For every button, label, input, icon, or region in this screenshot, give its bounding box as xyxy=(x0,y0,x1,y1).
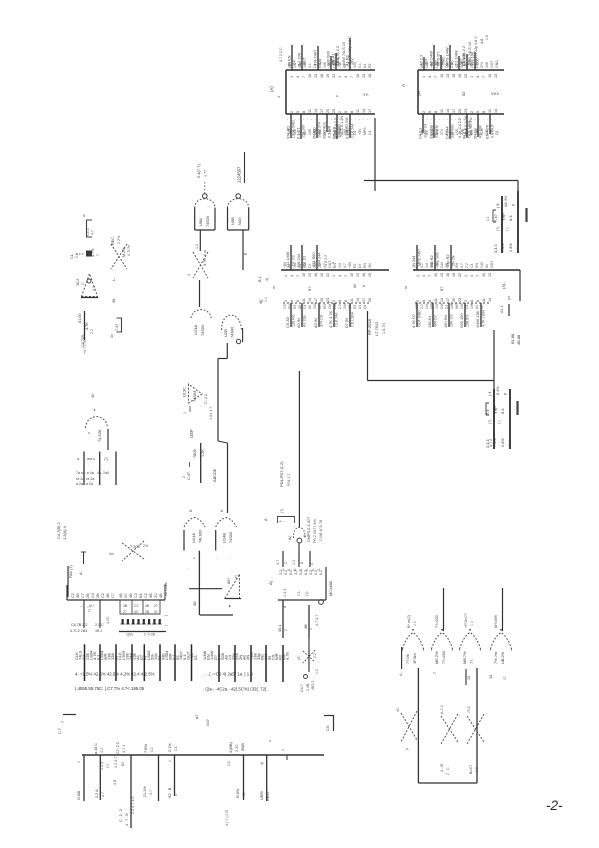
gate U5A NAND rotated up with bubble xyxy=(203,194,208,199)
svg-text:80?: 80? xyxy=(227,578,231,584)
svg-text:C/4B 4C0.78: C/4B 4C0.78 xyxy=(319,520,323,541)
svg-text:14: 14 xyxy=(494,109,498,113)
svg-text:11: 11 xyxy=(302,298,306,302)
svg-text:8: 8 xyxy=(303,535,307,537)
svg-text:4: 4 xyxy=(187,274,191,276)
svg-text:1/4W 74LS 10: 1/4W 74LS 10 xyxy=(468,42,472,66)
svg-text:13: 13 xyxy=(308,273,312,277)
svg-text:7C4: 7C4 xyxy=(467,706,471,713)
svg-text:2.2: 2.2 xyxy=(465,263,469,268)
svg-text:. 7: . 7 xyxy=(433,672,437,676)
IC U3 dashed bottom edge xyxy=(283,302,369,304)
svg-text:5.4: 5.4 xyxy=(500,408,505,414)
wire box right vertical xyxy=(476,668,478,783)
svg-text:7: 7 xyxy=(344,275,348,277)
svg-text:C . 2 . 2: C . 2 . 2 xyxy=(119,809,123,822)
svg-text:Q1: Q1 xyxy=(363,304,367,309)
svg-text:19: 19 xyxy=(458,74,462,78)
svg-text:2.2: 2.2 xyxy=(313,653,317,658)
svg-text:_#! !: _#! ! xyxy=(86,604,94,608)
svg-text:4.7: 4.7 xyxy=(149,790,153,795)
svg-text:p: p xyxy=(405,748,409,750)
wire from U5A input down xyxy=(199,230,201,251)
wire horizontal from U3 wire to U4 wire xyxy=(368,380,495,382)
svg-text:19: 19 xyxy=(452,273,456,277)
svg-text:5: 5 xyxy=(296,111,300,113)
wire below bubble gate xyxy=(298,543,300,551)
svg-text:49: 49 xyxy=(111,299,116,303)
svg-text:10K: 10K xyxy=(470,302,474,309)
svg-text:C4: C4 xyxy=(298,263,302,268)
svg-text:1.: 1. xyxy=(281,748,285,751)
svg-text:374 7407: 374 7407 xyxy=(313,50,318,66)
svg-text:138 A1: 138 A1 xyxy=(427,316,432,328)
svg-text:7: 7 xyxy=(61,721,65,723)
svg-text:7?=220: 7?=220 xyxy=(435,615,439,628)
svg-text:(7): (7) xyxy=(488,420,492,424)
svg-text:+5V: +5V xyxy=(348,261,352,268)
svg-text:4: 4 xyxy=(283,606,287,608)
connector bar underline xyxy=(67,599,165,601)
svg-text:13: 13 xyxy=(356,273,360,277)
resistor array band group1 wires xyxy=(84,644,86,681)
svg-text:13: 13 xyxy=(440,273,444,277)
svg-text:C4: C4 xyxy=(174,746,178,751)
svg-text:13: 13 xyxy=(489,675,493,679)
svg-text:4B: 4B xyxy=(149,593,153,598)
IC U4 top pin wires xyxy=(416,245,418,270)
svg-text:17: 17 xyxy=(368,109,372,113)
svg-text:RD: RD xyxy=(323,304,327,309)
svg-text:5%: 5% xyxy=(415,263,419,268)
svg-text:c: c xyxy=(335,95,339,97)
corner bracket top-right of bus xyxy=(324,715,334,717)
svg-text:UB.2%: UB.2% xyxy=(500,651,505,664)
svg-text:244: 244 xyxy=(440,303,444,309)
svg-text:74S00: 74S00 xyxy=(200,324,205,336)
svg-text:..: .. xyxy=(231,569,233,573)
component R5 vertical with labels xyxy=(200,443,202,483)
svg-text:3-: 3- xyxy=(317,568,321,571)
svg-text:IN EN: IN EN xyxy=(287,55,292,66)
svg-text:13: 13 xyxy=(488,273,492,277)
svg-text:1/4: 1/4 xyxy=(425,304,429,309)
svg-text:4B: 4B xyxy=(123,604,128,608)
resistor band end cluster wire from U6 pin xyxy=(308,638,310,672)
gate U7 arch left column xyxy=(86,417,108,429)
svg-text:19: 19 xyxy=(326,74,330,78)
svg-text:374 RD: 374 RD xyxy=(286,126,291,139)
svg-text:11: 11 xyxy=(440,109,444,113)
svg-text:7: 7 xyxy=(434,76,438,78)
svg-text:A0 IN: A0 IN xyxy=(313,318,318,328)
svg-text:2.2B: 2.2B xyxy=(306,683,310,691)
svg-text:22: 22 xyxy=(464,74,468,78)
gate U14A pointed arch xyxy=(184,518,205,528)
svg-text:2.2: 2.2 xyxy=(92,286,96,291)
svg-text:20: 20 xyxy=(320,298,324,302)
svg-text:D1: D1 xyxy=(358,305,362,309)
svg-text:(X),,: (X),, xyxy=(501,281,506,289)
svg-text:2.2: 2.2 xyxy=(90,329,94,334)
connector left vertical wire xyxy=(67,566,69,597)
svg-text:2: 2 xyxy=(290,111,294,113)
svg-text:D1: D1 xyxy=(193,654,198,660)
svg-text:4/4: 4/4 xyxy=(516,245,520,250)
svg-text:A-2 4: A-2 4 xyxy=(440,705,444,714)
svg-text:LT-7012: LT-7012 xyxy=(374,321,379,336)
gate U13A arc xyxy=(191,310,211,318)
bus net label with underline above U5B xyxy=(244,152,246,183)
svg-text:a.15 C: a.15 C xyxy=(94,743,98,754)
svg-text:4.2C: 4.2C xyxy=(106,616,110,624)
svg-text:VXX: VXX xyxy=(491,91,499,96)
svg-text:1: 1 xyxy=(416,275,420,277)
svg-text:2C: 2C xyxy=(124,593,128,598)
small gate with bubble on long wire xyxy=(293,528,305,539)
svg-text:8 4%: 8 4% xyxy=(496,386,500,395)
svg-text:4n: 4n xyxy=(110,334,114,338)
svg-text:17: 17 xyxy=(446,298,450,302)
svg-text:244: 244 xyxy=(333,303,337,309)
svg-text:8: 8 xyxy=(350,111,354,113)
svg-text:U5B: U5B xyxy=(230,217,235,225)
svg-text:5: 5 xyxy=(338,300,342,302)
svg-text:4.7: 4.7 xyxy=(420,263,424,268)
component C1 crystal network right wire xyxy=(517,191,519,253)
svg-text:CS: CS xyxy=(348,304,352,309)
svg-text:51.00: 51.00 xyxy=(78,313,82,323)
svg-text:45: 45 xyxy=(192,601,197,606)
svg-text:( 8: ( 8 xyxy=(496,204,500,208)
svg-text:0.1 OUT: 0.1 OUT xyxy=(491,123,495,138)
gate U14B left side line xyxy=(215,530,217,551)
svg-text:100 5%: 100 5% xyxy=(443,314,448,328)
svg-text:4: 4 xyxy=(310,563,314,565)
svg-text:1: 1 xyxy=(470,76,474,78)
svg-text:MPS: MPS xyxy=(415,301,419,309)
svg-text:1 2: 1 2 xyxy=(413,621,417,626)
svg-text:1.04 4.7: 1.04 4.7 xyxy=(209,407,213,420)
resistor array band group2 wires xyxy=(218,645,220,682)
svg-text:2N: 2N xyxy=(318,263,322,268)
svg-text:3.3.3: 3.3.3 xyxy=(494,245,498,253)
hanging resistor H7 xyxy=(266,755,268,801)
wire box bottom xyxy=(418,782,477,784)
svg-text:0.1: 0.1 xyxy=(358,63,362,68)
svg-text:IN: IN xyxy=(485,264,489,268)
svg-text:J2 CON: J2 CON xyxy=(164,582,168,596)
svg-text:ME.2%: ME.2% xyxy=(434,651,439,664)
svg-text:D7: D7 xyxy=(308,263,312,268)
svg-text:( ): ( ) xyxy=(505,228,509,231)
svg-text:2.2: 2.2 xyxy=(338,304,342,309)
svg-text:1 2: 1 2 xyxy=(470,621,474,626)
svg-text:5: 5 xyxy=(422,300,426,302)
svg-text:2: 2 xyxy=(422,111,426,113)
svg-text:C2.2: C2.2 xyxy=(86,228,90,236)
svg-text:4: 4 xyxy=(296,76,300,78)
hanging stub H8 xyxy=(286,755,288,760)
transistor Q6 crossed symbol xyxy=(122,543,144,559)
svg-text:2.2: 2.2 xyxy=(420,304,424,309)
wire Q1 to gate U13A xyxy=(199,280,201,307)
svg-text:7a sa. a 4a: 7a sa. a 4a xyxy=(76,471,94,475)
svg-text:244: 244 xyxy=(440,262,444,268)
svg-text:MC1488: MC1488 xyxy=(328,581,333,596)
long vertical wire mid column upper xyxy=(217,359,219,442)
svg-text:11: 11 xyxy=(482,298,486,302)
svg-text:RD: RD xyxy=(303,262,307,268)
indicator circle xyxy=(304,675,308,679)
svg-text:4.7-4.7: 4.7-4.7 xyxy=(315,615,319,626)
svg-text:4.7C2 2B4: 4.7C2 2B4 xyxy=(70,629,87,633)
svg-text:1/4: 1/4 xyxy=(435,304,439,309)
svg-text:U5A: U5A xyxy=(198,218,203,226)
svg-text:2.2: 2.2 xyxy=(75,253,79,258)
svg-text:1: 1 xyxy=(284,275,288,277)
svg-text:(A): (A) xyxy=(269,86,274,92)
resistor R1 vertical xyxy=(84,311,86,340)
svg-text:C4: C4 xyxy=(303,305,307,309)
svg-text:13: 13 xyxy=(362,74,366,78)
svg-text:WR: WR xyxy=(319,59,323,65)
svg-text:5: 5 xyxy=(290,300,294,302)
svg-text:8: 8 xyxy=(482,111,486,113)
svg-text:W: W xyxy=(352,284,357,288)
gate U2B arc with bubble xyxy=(222,315,242,330)
IC U3 bottom pin wires and labels xyxy=(290,303,292,327)
svg-text:4.7K: 4.7K xyxy=(85,322,89,330)
svg-text:1: 1 xyxy=(168,760,172,762)
svg-text:374: 374 xyxy=(440,129,444,135)
IC U1 bottom pin wires xyxy=(290,114,292,138)
svg-text:4B: 4B xyxy=(76,593,80,598)
svg-text:4.7 2: 4.7 2 xyxy=(489,439,493,447)
svg-text:16: 16 xyxy=(320,74,324,78)
gate 7%.?m pointed arch xyxy=(491,633,512,650)
svg-text:(7): (7) xyxy=(496,227,500,231)
svg-text:12: 12 xyxy=(467,676,471,680)
svg-text:IN: IN xyxy=(318,305,322,309)
svg-text:C4: C4 xyxy=(91,593,95,598)
corner bracket top-left of bus xyxy=(63,714,76,716)
svg-text:5%: 5% xyxy=(455,263,459,268)
svg-text:8: 8 xyxy=(344,300,348,302)
diode D1 with dashes xyxy=(86,251,92,257)
svg-text:2.2C: 2.2C xyxy=(235,744,239,752)
svg-text://////: ////// xyxy=(205,718,210,726)
svg-text:-..: -.. xyxy=(80,604,83,608)
svg-text:4.7: 4.7 xyxy=(460,263,464,268)
svg-text:1(B): 1(B) xyxy=(126,633,133,637)
svg-text:10: 10 xyxy=(440,74,444,78)
svg-text:74.S26: 74.S26 xyxy=(97,430,102,442)
svg-text:2.2 C: 2.2 C xyxy=(95,623,104,627)
svg-text:C 4 2B: C 4 2B xyxy=(144,633,156,637)
svg-text:1/4: 1/4 xyxy=(425,263,429,268)
svg-text:EN: EN xyxy=(288,304,292,309)
svg-text:IN: IN xyxy=(480,305,484,309)
svg-text:( ): ( ) xyxy=(497,421,501,424)
svg-text:1/4: 1/4 xyxy=(435,263,439,268)
bracket right ] xyxy=(117,318,122,332)
svg-text:u: u xyxy=(87,432,91,434)
svg-text:74LS 0.1 2N: 74LS 0.1 2N xyxy=(340,116,344,137)
svg-text:A0: A0 xyxy=(308,305,312,309)
svg-text:m: m xyxy=(404,286,408,289)
IC U6 body xyxy=(278,599,326,601)
long vertical wire mid column lower with jog xyxy=(218,441,228,443)
gate ME.2% pointed arch xyxy=(432,633,453,650)
svg-text:1 - B: 1 - B xyxy=(440,764,444,772)
svg-text:5: 5 xyxy=(470,300,474,302)
svg-text:CLK 244: CLK 244 xyxy=(351,124,355,138)
gate ME.2% input wire above xyxy=(443,588,445,631)
svg-text:4B: 4B xyxy=(119,593,123,598)
svg-text:B=C?: B=C? xyxy=(469,765,473,774)
svg-text:D1: D1 xyxy=(445,305,449,309)
svg-text:a 2a.. a 2a: a 2a.. a 2a xyxy=(76,482,93,486)
svg-text:C1: C1 xyxy=(486,216,490,221)
gate U14B pointed arch xyxy=(216,518,237,528)
svg-text:B 1: B 1 xyxy=(258,276,262,282)
svg-text:7%.?m: 7%.?m xyxy=(493,652,498,664)
horizontal wire crossing at 588 xyxy=(189,588,222,590)
svg-text:21.1%: 21.1% xyxy=(143,786,147,797)
svg-text:C7: C7 xyxy=(111,593,115,598)
svg-text:m: m xyxy=(272,286,276,289)
svg-text:c/l: c/l xyxy=(234,575,238,579)
svg-text:P04 1.7: P04 1.7 xyxy=(287,473,291,486)
svg-text:74LS 0.1 2N: 74LS 0.1 2N xyxy=(464,116,468,137)
svg-text:B4: B4 xyxy=(139,593,143,598)
bottom horizontal wire at 615 xyxy=(200,614,233,616)
svg-text:4.8: 4.8 xyxy=(480,39,484,44)
svg-text:100 74LS: 100 74LS xyxy=(322,122,327,139)
transistor Q2 crossed symbol xyxy=(111,244,127,269)
svg-text:23: 23 xyxy=(458,298,462,302)
svg-text:R.5%: R.5% xyxy=(236,788,240,798)
svg-text:C4: C4 xyxy=(470,263,474,268)
svg-text:U14B: U14B xyxy=(222,533,227,543)
svg-text:P0.2 20?7.4%: P0.2 20?7.4% xyxy=(313,519,317,543)
svg-text:CLK 244: CLK 244 xyxy=(335,313,339,327)
svg-text:A1.4: A1.4 xyxy=(500,305,504,313)
gate MB.7% pointed arch xyxy=(460,633,481,650)
svg-text:17: 17 xyxy=(314,298,318,302)
svg-text:14: 14 xyxy=(314,109,318,113)
svg-text:10.2: 10.2 xyxy=(76,279,80,286)
svg-text:1!!: 1!! xyxy=(90,394,95,398)
svg-text:2N D1: 2N D1 xyxy=(473,128,478,139)
svg-text:20: 20 xyxy=(458,109,462,113)
svg-text:1: 1 xyxy=(422,76,426,78)
svg-text:C2: C2 xyxy=(71,593,75,598)
svg-text:1.2: 1.2 xyxy=(475,767,479,772)
svg-text:3-: 3- xyxy=(281,568,285,571)
gate U5B NAND rotated up with bubble xyxy=(236,194,241,199)
svg-text:4.7C%: 4.7C% xyxy=(127,244,131,256)
IC U6 bottom pin wires xyxy=(282,600,284,638)
svg-text:C7: C7 xyxy=(81,593,85,598)
svg-text:UER/: UER/ xyxy=(260,790,264,800)
svg-text:8: 8 xyxy=(300,562,304,564)
jog wire to long vertical xyxy=(218,358,227,360)
wire below U2B bubble xyxy=(226,343,228,359)
svg-text:0-: 0- xyxy=(287,568,291,571)
transistor Q7 crossed symbol on wire xyxy=(303,651,315,662)
IC U4 bottom pin wires and labels xyxy=(416,303,418,327)
svg-text:A: A xyxy=(401,84,406,87)
IC U1 body xyxy=(286,69,375,71)
svg-text:50(B: 50(B xyxy=(241,743,245,751)
svg-text:8 m: 8 m xyxy=(203,250,207,256)
svg-text:2.2 4.7 1.2: 2.2 4.7 1.2 xyxy=(131,797,135,814)
svg-text:10K CS: 10K CS xyxy=(450,314,454,327)
svg-text:C2: C2 xyxy=(134,604,138,608)
svg-text:0.1 10K: 0.1 10K xyxy=(297,52,302,66)
svg-text:(7): (7) xyxy=(104,457,108,461)
wire from U5B input down xyxy=(242,230,244,270)
svg-text:0.1 2N 33p 4.8 C: 0.1 2N 33p 4.8 C xyxy=(474,36,478,64)
svg-text:7.2C7: 7.2C7 xyxy=(130,545,140,549)
IC U2 bottom pin wires xyxy=(433,114,435,138)
svg-text:EN: EN xyxy=(363,263,367,268)
svg-text:47: 47 xyxy=(154,610,158,614)
svg-text:17: 17 xyxy=(452,109,456,113)
svg-text:p4: p4 xyxy=(507,296,511,300)
svg-text:C2: C2 xyxy=(242,792,246,797)
svg-text:WR D7: WR D7 xyxy=(434,315,438,327)
svg-text:74LS00: 74LS00 xyxy=(198,529,203,543)
svg-text:.s: .s xyxy=(362,284,365,288)
wire box left vertical xyxy=(417,668,419,783)
svg-text:a.: a. xyxy=(77,457,80,461)
component C1 left bracket xyxy=(493,210,496,222)
svg-text:w: w xyxy=(82,214,86,217)
svg-text:R2: R2 xyxy=(368,63,372,68)
svg-text:2: 2 xyxy=(338,111,342,113)
wire from U4 bottom down to C2 xyxy=(493,330,495,389)
svg-text:U2B: U2B xyxy=(223,329,228,337)
zener triangle D2 xyxy=(82,274,98,297)
wire down to component C1 xyxy=(517,181,519,192)
svg-text:C2: C2 xyxy=(134,593,138,598)
svg-text:4: 4 xyxy=(338,275,342,277)
svg-text:2B: 2B xyxy=(86,593,90,598)
bottom bus line xyxy=(82,754,324,756)
svg-text:. - .( -=C2 4) 2a5( 1a. | 1.5: . - .( -=C2 4) 2a5( 1a. | 1.5 xyxy=(203,672,253,677)
svg-text:-: - xyxy=(365,119,369,120)
svg-text:13: 13 xyxy=(446,74,450,78)
svg-text:10: 10 xyxy=(482,273,486,277)
svg-text:10: 10 xyxy=(434,273,438,277)
svg-text:L.: L. xyxy=(111,278,116,281)
svg-text:8: 8 xyxy=(434,111,438,113)
svg-text:C2 4.7K 2.2: C2 4.7K 2.2 xyxy=(336,46,340,66)
svg-text:4.7 2.2 C: 4.7 2.2 C xyxy=(279,47,283,62)
svg-text:A1: A1 xyxy=(363,64,367,68)
svg-text:2C: 2C xyxy=(154,593,158,598)
svg-text:(.4555.55.75C: ).C7.7% 4.7<.19: (.4555.55.75C: ).C7.7% 4.7<.195.05 xyxy=(75,686,145,691)
svg-text:R2: R2 xyxy=(293,305,297,309)
svg-text:5: 5 xyxy=(476,111,480,113)
svg-text:4B2.2: 4B2.2 xyxy=(311,681,315,690)
svg-text:1/4: 1/4 xyxy=(293,263,297,268)
svg-text:22: 22 xyxy=(326,273,330,277)
svg-text:Y#P: Y#P xyxy=(493,406,498,414)
